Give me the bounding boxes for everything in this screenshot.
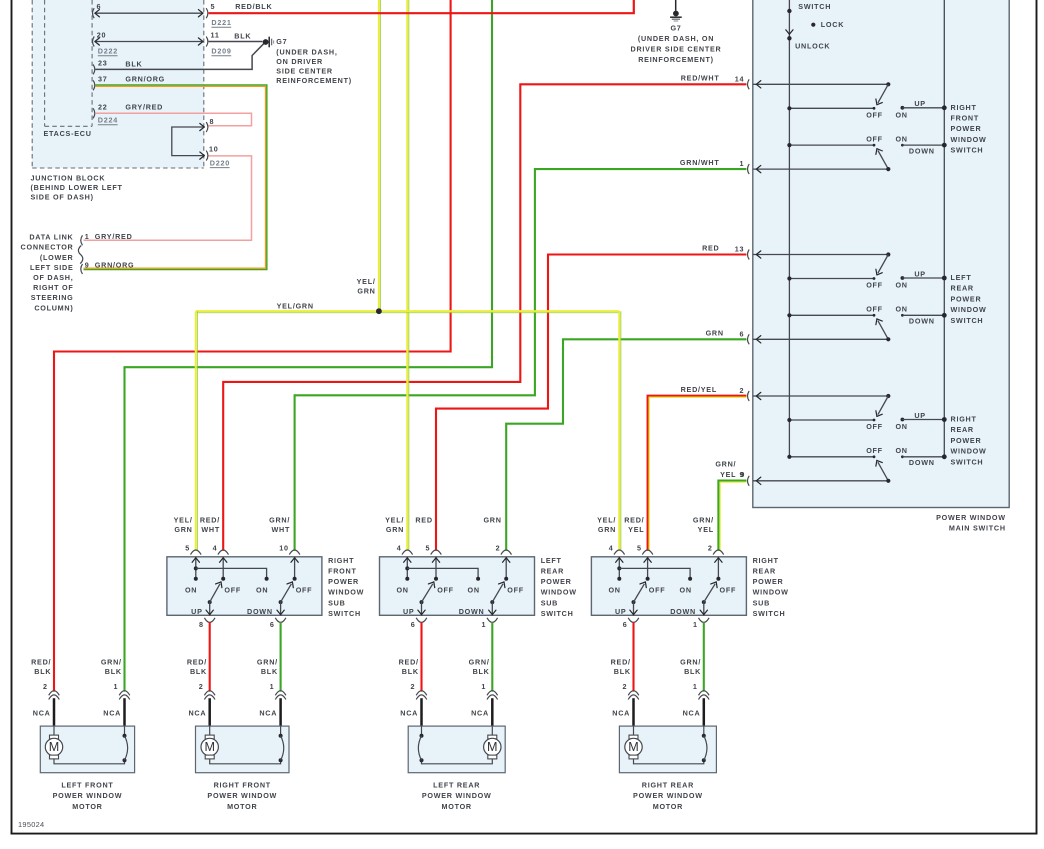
svg-text:OF DASH,: OF DASH, [33,273,73,282]
svg-text:BLK: BLK [684,667,701,676]
svg-text:RED/: RED/ [611,658,631,667]
main switch pin 13 RED [747,250,749,260]
svg-text:GRN: GRN [706,328,724,337]
OFF contact line A [789,419,874,421]
motor contact arc [703,726,705,736]
svg-text:YEL: YEL [628,525,644,534]
svg-text:RED/: RED/ [624,515,644,524]
svg-text:6: 6 [740,329,745,338]
wire GRY/RED pin10 to data link connector pin1 [84,156,252,240]
black lead wires [420,698,423,727]
svg-text:DATA LINK: DATA LINK [29,233,73,242]
svg-text:ON: ON [468,586,480,595]
svg-text:1: 1 [740,159,745,168]
svg-text:ON: ON [895,305,907,314]
wiper UP [420,600,424,604]
RIGHT REAR sub switch box [591,557,746,616]
switch group RIGHT FRONT shaft A [753,83,889,85]
wiper B [878,321,888,340]
svg-text:GRY/RED: GRY/RED [125,102,163,111]
svg-text:BLK: BLK [105,667,122,676]
svg-text:JUNCTION BLOCK: JUNCTION BLOCK [31,174,106,183]
svg-text:(LOWER: (LOWER [40,253,74,262]
ON contact A + UP line [901,276,905,280]
svg-text:MOTOR: MOTOR [653,802,683,811]
wire GRY/RED pin22 to junction pin8 [95,113,251,126]
svg-text:ON: ON [895,281,907,290]
motor contact arc [124,726,126,736]
svg-text:YEL/: YEL/ [357,277,376,286]
svg-text:GRN/: GRN/ [469,658,490,667]
svg-text:OFF: OFF [866,134,883,143]
svg-text:RED/YEL: RED/YEL [681,385,717,394]
motor symbol [53,726,55,735]
pin C internal with up arrow [505,557,507,579]
svg-text:6: 6 [623,620,628,629]
OFF contact line B [789,456,874,458]
UP output arrow [633,602,635,615]
svg-text:ON: ON [185,586,197,595]
UP output arrow [209,602,211,615]
svg-text:23: 23 [98,58,108,67]
svg-text:8: 8 [210,117,215,126]
svg-text:RIGHT FRONT: RIGHT FRONT [214,781,271,790]
OFF contact line B [789,314,874,316]
shaft B [753,168,889,170]
wire YEL/GRN vertical to left rear sub switch pin4 [406,0,408,551]
svg-text:RIGHT REAR: RIGHT REAR [642,781,694,790]
junction block fill [32,0,204,168]
pin B internal with up arrow [647,557,649,579]
svg-text:RED/BLK: RED/BLK [235,2,272,11]
junction pin 10 connector [206,151,208,161]
svg-text:REINFORCEMENT): REINFORCEMENT) [638,55,714,64]
svg-text:2: 2 [708,543,713,552]
lock switch [787,9,791,13]
main switch pin 14 RED/WHT [747,79,749,89]
svg-text:POWER: POWER [951,294,982,303]
wire RED/BLK to motor [420,622,422,691]
svg-text:POWER WINDOW: POWER WINDOW [53,791,123,800]
svg-text:MOTOR: MOTOR [227,802,257,811]
pin A internal with up arrow [406,557,408,579]
svg-text:1: 1 [481,682,486,691]
internal bus [196,568,267,578]
svg-text:RIGHT: RIGHT [951,415,977,424]
pin C internal with up arrow [294,557,296,579]
motor internal wire [634,759,704,764]
svg-text:NCA: NCA [400,709,418,718]
svg-text:YEL/: YEL/ [597,515,616,524]
ground G7 left symbol [263,39,269,45]
svg-text:OFF: OFF [296,586,313,595]
wire ETACS pin6 to junction pin5 [95,12,202,14]
svg-text:NCA: NCA [612,709,630,718]
svg-text:2: 2 [496,543,501,552]
main switch left bus [788,0,790,457]
ON contact A + UP line [901,418,905,422]
svg-text:UP: UP [191,607,203,616]
svg-text:11: 11 [211,30,220,39]
wire RED/BLK to motor [209,622,211,691]
svg-text:M: M [204,740,215,754]
svg-text:UP: UP [403,607,415,616]
wire YEL/GRN vertical to junction node [378,0,380,311]
wire GRN/BLK to motor [280,622,282,691]
svg-text:UP: UP [615,607,627,616]
wiper DOWN [702,600,706,604]
svg-text:DOWN: DOWN [670,607,696,616]
wiper A [878,255,888,274]
svg-text:FRONT: FRONT [328,567,357,576]
jumper wire pin8 to pin10 [172,127,203,156]
svg-text:LEFT: LEFT [951,273,972,282]
svg-text:M: M [49,740,60,754]
svg-text:DOWN: DOWN [909,146,935,155]
svg-text:POWER WINDOW: POWER WINDOW [207,791,277,800]
svg-text:GRN/: GRN/ [693,515,714,524]
svg-text:NCA: NCA [259,709,277,718]
svg-text:M: M [487,740,498,754]
svg-text:OFF: OFF [507,586,524,595]
svg-text:5: 5 [425,543,430,552]
UP output arrow [421,602,423,615]
data link connector pin1 [81,235,83,245]
shaft B [753,480,889,482]
svg-text:REAR: REAR [753,567,776,576]
svg-text:DRIVER SIDE CENTER: DRIVER SIDE CENTER [631,44,722,53]
svg-text:BLK: BLK [125,60,142,69]
svg-text:BLK: BLK [261,667,278,676]
svg-text:4: 4 [213,543,218,552]
motor internal wire [422,759,493,764]
pin 23 connector [93,64,95,74]
svg-text:6: 6 [97,2,102,11]
wiper DOWN [490,600,494,604]
svg-text:5: 5 [211,2,216,11]
wiper DOWN [279,600,283,604]
svg-text:8: 8 [199,620,204,629]
motor contact arc [421,726,423,736]
ETACS-ECU dashed box [44,0,46,126]
wire YEL/GRN down to right rear sub switch pin4 [618,311,620,551]
svg-text:GRN: GRN [357,287,375,296]
svg-text:YEL: YEL [720,470,736,479]
svg-text:ON: ON [895,110,907,119]
svg-text:SWITCH: SWITCH [753,609,786,618]
svg-text:13: 13 [735,245,745,254]
output pin 6 connector [628,618,639,623]
svg-text:G7: G7 [276,37,287,46]
svg-text:OFF: OFF [649,586,666,595]
svg-text:GRN/: GRN/ [269,515,290,524]
svg-text:LEFT FRONT: LEFT FRONT [61,781,113,790]
internal bus [407,568,478,578]
svg-text:OFF: OFF [224,586,241,595]
wire YEL/GRN horizontal bus [196,310,620,312]
svg-text:WINDOW: WINDOW [541,588,577,597]
ON contact A + UP line [901,106,905,110]
svg-text:20: 20 [97,30,107,39]
svg-text:OFF: OFF [866,422,883,431]
svg-text:BLK: BLK [473,667,490,676]
svg-text:CONNECTOR: CONNECTOR [21,243,74,252]
svg-text:9: 9 [85,261,90,270]
wire GRN/BLK to motor [491,622,493,691]
svg-text:LEFT: LEFT [541,556,562,565]
wire RED/BLK to motor [632,622,634,691]
wiper A [878,84,888,103]
svg-text:GRN/: GRN/ [680,658,701,667]
svg-text:WINDOW: WINDOW [951,135,987,144]
svg-text:D224: D224 [98,116,118,125]
svg-text:YEL/GRN: YEL/GRN [277,302,314,311]
svg-text:POWER WINDOW: POWER WINDOW [936,513,1006,522]
svg-text:6: 6 [270,620,275,629]
output pin 1 connector [487,618,498,623]
svg-text:10: 10 [279,543,289,552]
output pin 8 connector [204,618,215,623]
svg-text:RIGHT OF: RIGHT OF [33,283,73,292]
svg-text:14: 14 [735,74,745,83]
OFF contact line A [789,107,874,109]
node YEL/GRN junction [376,308,382,314]
svg-text:OFF: OFF [719,586,736,595]
svg-text:RED/: RED/ [31,658,51,667]
svg-text:SWITCH: SWITCH [541,609,574,618]
motor internal wire [54,759,125,764]
svg-text:GRN/ORG: GRN/ORG [125,74,165,83]
wiper UP [208,600,212,604]
wire GRN/BLK to motor [703,622,705,691]
svg-text:SWITCH: SWITCH [798,2,831,11]
svg-text:(BEHIND LOWER LEFT: (BEHIND LOWER LEFT [31,183,123,192]
svg-text:SIDE OF DASH): SIDE OF DASH) [31,193,94,202]
svg-text:UP: UP [914,411,926,420]
svg-text:DOWN: DOWN [909,458,935,467]
svg-text:OFF: OFF [866,305,883,314]
svg-text:SWITCH: SWITCH [951,316,984,325]
svg-text:RIGHT: RIGHT [328,556,354,565]
svg-text:BLK: BLK [34,667,51,676]
svg-text:10: 10 [209,145,219,154]
svg-text:LOCK: LOCK [821,20,844,29]
svg-text:GRN/ORG: GRN/ORG [95,261,135,270]
main switch pin 2 RED/YEL [747,391,749,401]
output pin 6 connector [275,618,286,623]
svg-text:COLUMN): COLUMN) [34,303,73,312]
svg-text:195024: 195024 [18,820,44,829]
OFF contact line A [789,278,874,280]
svg-text:WHT: WHT [201,525,220,534]
svg-text:D221: D221 [211,18,231,27]
pin 22 connector [93,108,95,118]
svg-text:22: 22 [98,102,108,111]
svg-text:UP: UP [914,269,926,278]
svg-text:RIGHT: RIGHT [951,103,977,112]
wire GRN/ORG to data link connector pin9 [84,85,267,270]
svg-text:YEL/: YEL/ [174,515,193,524]
svg-text:SWITCH: SWITCH [951,457,984,466]
power window main switch box [753,0,1009,508]
svg-text:MOTOR: MOTOR [442,802,472,811]
wire green to left front motor [125,0,493,692]
svg-text:G7: G7 [670,24,681,33]
pin 37 connector [93,80,95,90]
svg-text:ON: ON [256,586,268,595]
ON contact B + DOWN line [901,455,904,458]
svg-text:MAIN SWITCH: MAIN SWITCH [949,524,1006,533]
svg-text:ON DRIVER: ON DRIVER [276,57,323,66]
switch group LEFT REAR shaft A [753,254,889,256]
svg-text:1: 1 [85,232,90,241]
svg-text:FRONT: FRONT [951,114,980,123]
svg-text:REAR: REAR [951,284,974,293]
svg-text:6: 6 [411,620,416,629]
svg-text:REINFORCEMENT): REINFORCEMENT) [276,76,352,85]
svg-text:RIGHT: RIGHT [753,556,779,565]
motor contact arc [280,726,282,736]
data link connector body [78,246,82,264]
svg-text:(UNDER DASH, ON: (UNDER DASH, ON [638,34,714,43]
svg-text:SWITCH: SWITCH [951,146,984,155]
motor symbol [491,726,493,735]
svg-text:POWER: POWER [541,577,572,586]
svg-text:GRN/: GRN/ [101,658,122,667]
svg-text:NCA: NCA [683,709,701,718]
black lead wires [208,698,211,727]
svg-text:9: 9 [740,470,745,479]
svg-text:POWER: POWER [328,577,359,586]
wiper A [878,396,888,415]
svg-text:ON: ON [895,134,907,143]
svg-text:GRN/: GRN/ [257,658,278,667]
svg-text:STEERING: STEERING [31,293,74,302]
svg-text:NCA: NCA [188,709,206,718]
svg-text:NCA: NCA [33,709,51,718]
RIGHT REAR box [619,726,716,773]
motor symbol [209,726,211,735]
svg-text:LEFT REAR: LEFT REAR [433,781,480,790]
svg-text:YEL/: YEL/ [385,515,404,524]
svg-text:GRN: GRN [483,515,501,524]
svg-text:RED: RED [702,244,719,253]
svg-text:RED/: RED/ [187,658,207,667]
svg-text:OFF: OFF [437,586,454,595]
svg-text:1: 1 [482,620,487,629]
svg-text:GRN/: GRN/ [715,460,736,469]
shaft B [753,338,889,340]
svg-text:OFF: OFF [866,110,883,119]
pin B internal with up arrow [435,557,437,579]
pin A internal with up arrow [618,557,620,579]
svg-text:SUB: SUB [753,598,770,607]
wire ETACS pin20 to junction pin11 [95,41,202,43]
svg-text:OFF: OFF [866,446,883,455]
svg-text:RED/WHT: RED/WHT [681,73,720,82]
svg-text:ON: ON [396,586,408,595]
ON contact B + DOWN line [901,314,904,317]
svg-text:2: 2 [411,682,416,691]
svg-text:4: 4 [609,543,614,552]
svg-text:OFF: OFF [866,281,883,290]
wiper B [878,462,888,481]
svg-text:GRN: GRN [174,525,192,534]
main switch pin 9 GRN/YEL [747,476,749,486]
svg-text:GRN: GRN [598,525,616,534]
motor symbol [633,726,635,735]
svg-text:SUB: SUB [541,598,558,607]
svg-text:5: 5 [185,543,190,552]
output pin 6 connector [416,618,427,623]
svg-text:ETACS-ECU: ETACS-ECU [44,129,92,138]
wire red to left front motor [54,0,451,692]
svg-text:2: 2 [199,682,204,691]
svg-text:37: 37 [98,74,108,83]
svg-text:DOWN: DOWN [909,317,935,326]
internal bus [619,568,690,578]
wire BLK pin11 to ground G7 [209,41,263,43]
svg-text:WINDOW: WINDOW [753,588,789,597]
svg-text:GRN/WHT: GRN/WHT [680,158,720,167]
svg-text:1: 1 [270,682,275,691]
svg-text:1: 1 [114,682,119,691]
svg-text:NCA: NCA [471,709,489,718]
LEFT REAR box [408,726,505,773]
svg-text:BLK: BLK [234,32,251,41]
black lead wires [53,698,56,727]
svg-text:WINDOW: WINDOW [951,447,987,456]
junction pin 8 connector [206,122,208,132]
pin C internal with up arrow [717,557,719,579]
svg-text:YEL: YEL [698,525,714,534]
svg-text:RED: RED [415,515,432,524]
OFF contact line B [789,144,874,146]
wire RED/BLK upper run [209,0,634,13]
svg-text:POWER: POWER [951,124,982,133]
DOWN output arrow [280,602,282,615]
output pin 1 connector [699,618,710,623]
svg-text:5: 5 [637,543,642,552]
svg-text:POWER: POWER [951,436,982,445]
svg-text:1: 1 [693,682,698,691]
black lead wires [632,698,635,727]
svg-text:BLK: BLK [190,667,207,676]
svg-text:WINDOW: WINDOW [328,588,364,597]
ground G7 middle symbol [675,0,677,11]
svg-text:SIDE CENTER: SIDE CENTER [276,67,333,76]
svg-text:SWITCH: SWITCH [328,609,361,618]
svg-text:NCA: NCA [103,709,121,718]
svg-text:RED/: RED/ [200,515,220,524]
junction block dashed border [31,0,33,168]
svg-text:D209: D209 [211,47,231,56]
svg-text:M: M [628,740,639,754]
wiper B [878,151,888,170]
svg-text:GRY/RED: GRY/RED [95,232,133,241]
svg-text:ON: ON [680,586,692,595]
svg-text:MOTOR: MOTOR [72,802,102,811]
LEFT FRONT box [40,726,134,773]
DOWN output arrow [491,602,493,615]
wire YEL/GRN down to right front sub switch pin5 [195,311,197,551]
svg-text:REAR: REAR [951,425,974,434]
pin A internal with up arrow [195,557,197,579]
svg-text:RED/: RED/ [399,658,419,667]
svg-text:POWER: POWER [753,577,784,586]
main switch pin 1 GRN/WHT [747,164,749,174]
main switch right bus [943,0,945,457]
